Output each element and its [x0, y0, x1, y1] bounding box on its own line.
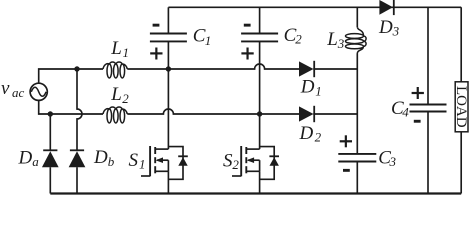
label L1	[110, 38, 129, 60]
wire: y114 from node D to D2	[260, 113, 299, 115]
S1 source lead to rail	[167, 171, 169, 193]
capacitor C1	[150, 7, 187, 69]
svg-text:D: D	[300, 77, 315, 98]
label D3	[378, 17, 400, 39]
inductor L3	[346, 27, 367, 53]
capacitor C4	[410, 7, 447, 193]
wire: L3 top from rail	[356, 7, 358, 27]
inductor L1	[103, 62, 127, 78]
C4 minus sign	[414, 120, 421, 123]
label D1	[300, 77, 322, 99]
label L2	[110, 84, 129, 106]
diode Da	[42, 150, 59, 193]
mosfet S2	[232, 146, 279, 194]
bottom rail	[50, 192, 461, 194]
svg-text:L: L	[110, 38, 122, 59]
wire: node C down to S1 drain (passes through L2 hop)	[167, 69, 169, 149]
S2 body diode branch	[260, 147, 275, 180]
svg-text:L: L	[110, 84, 122, 105]
label L3	[326, 29, 345, 51]
S2 gate lead	[232, 175, 241, 177]
wire: Da branch from node B down	[49, 114, 51, 150]
wire: L1 to C1 node	[127, 68, 168, 70]
C3 plus sign	[340, 135, 352, 147]
label S2	[223, 150, 239, 172]
diode D2	[299, 106, 357, 122]
diode D1	[299, 61, 357, 77]
label Db	[93, 147, 115, 169]
diode Db	[69, 150, 86, 193]
label v_ac	[1, 78, 25, 100]
node dot D (C2/L2/S2 junction)	[257, 111, 262, 116]
svg-text:S: S	[129, 150, 139, 171]
S2 source contact	[246, 170, 259, 172]
wire: right side down to LOAD	[460, 7, 462, 82]
svg-text:2: 2	[295, 31, 302, 46]
wire: L3 bottom down through D1/D2 junctions to C3	[356, 54, 358, 154]
wire: y69 with hop over C2 branch, to D1	[168, 64, 299, 69]
svg-text:D: D	[299, 123, 314, 144]
S1 body arrow	[157, 159, 168, 161]
svg-text:1: 1	[205, 33, 212, 48]
diode D3 on top rail	[379, 0, 393, 15]
S1 gate lead	[141, 175, 150, 177]
LOAD text	[453, 86, 469, 128]
label C2	[284, 25, 303, 46]
svg-text:v: v	[1, 78, 10, 99]
wire: source top lead to L1	[39, 69, 103, 83]
capacitor C3	[338, 154, 376, 194]
mosfet S1	[141, 146, 188, 194]
C1 plus sign	[150, 48, 162, 60]
C1 minus sign	[153, 24, 160, 27]
S2 drain contact	[246, 148, 259, 150]
S2 body diode	[269, 155, 279, 157]
svg-text:3: 3	[337, 36, 345, 51]
S1 channel bar dashes	[154, 147, 156, 173]
svg-text:1: 1	[315, 83, 322, 98]
svg-text:2: 2	[315, 130, 322, 145]
wire: source bottom lead to L2	[39, 100, 103, 114]
C2 minus sign	[244, 24, 251, 27]
svg-text:4: 4	[402, 104, 409, 119]
C2 plus sign	[241, 48, 253, 60]
S2 body-to-source vertical	[259, 160, 261, 171]
S1 body-to-source vertical	[167, 160, 169, 171]
svg-text:b: b	[108, 154, 115, 169]
svg-text:1: 1	[123, 45, 130, 60]
label C1	[193, 26, 212, 48]
S2 gate bar	[240, 146, 242, 176]
S1 gate bar	[149, 146, 151, 176]
label S1	[129, 150, 146, 172]
capacitor C2	[241, 7, 278, 149]
svg-text:3: 3	[392, 24, 400, 39]
C4 plus sign	[412, 87, 424, 99]
wire: LOAD bottom to rail	[460, 132, 462, 194]
label C3	[378, 148, 396, 169]
label C4	[391, 98, 409, 119]
svg-text:1: 1	[139, 157, 146, 172]
svg-text:2: 2	[232, 157, 239, 172]
wire: L2 to hop, hop over S1 branch, then to C2 node	[127, 109, 259, 114]
S1 source contact	[155, 170, 168, 172]
svg-text:2: 2	[122, 91, 129, 106]
LOAD box	[455, 82, 468, 132]
S1 drain contact	[155, 148, 168, 150]
top rail	[168, 6, 461, 8]
ac source Vac	[30, 83, 47, 100]
svg-text:D: D	[93, 147, 108, 168]
S2 channel bar dashes	[245, 147, 247, 173]
S2 source lead to rail	[259, 171, 261, 193]
node dot A (top, x=77)	[74, 66, 79, 71]
S1 body diode	[178, 155, 188, 157]
label D2	[299, 123, 322, 145]
svg-text:3: 3	[389, 154, 397, 169]
svg-text:D: D	[378, 17, 393, 38]
svg-text:L: L	[326, 29, 338, 50]
node dot C (C1/L1/S1 junction)	[166, 66, 171, 71]
S2 body arrow	[248, 159, 260, 161]
svg-text:ac: ac	[12, 85, 25, 100]
svg-text:LOAD: LOAD	[453, 86, 469, 128]
node dot B (bottom, x=50.3)	[48, 111, 53, 116]
inductor L2	[103, 107, 127, 123]
wire: Db branch from node A down with hop over L2 wire	[77, 69, 82, 150]
svg-text:D: D	[18, 148, 33, 169]
label Da	[18, 148, 40, 169]
S1 body diode branch	[168, 147, 183, 180]
svg-text:a: a	[32, 154, 39, 169]
C3 minus sign	[343, 169, 350, 172]
